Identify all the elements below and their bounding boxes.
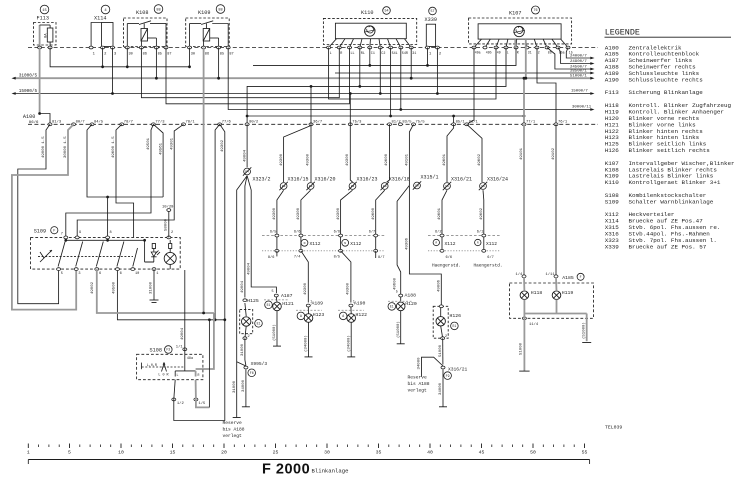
pin A100 76/1: [554, 120, 568, 126]
connector X316/18: [381, 177, 410, 191]
svg-text:49600: 49600: [372, 207, 376, 220]
pin K110-C2: [378, 46, 385, 56]
svg-text:88: 88: [156, 8, 160, 12]
svg-text:5: 5: [68, 450, 71, 456]
svg-text:A190: A190: [605, 76, 620, 83]
bulb designator E1 H126: [451, 322, 459, 330]
pin X112 8/5: [334, 249, 343, 259]
connector X112 #1: [301, 239, 321, 247]
wire K110-C2 drop to 15000 bus: [379, 48, 382, 95]
svg-text:28500/1: 28500/1: [570, 68, 587, 73]
pin K110-31: [409, 46, 416, 56]
svg-text:X316/18: X316/18: [389, 177, 410, 183]
wire label 31000 S109: [149, 281, 153, 294]
svg-text:49300: 49300: [273, 207, 277, 220]
wire pin 75/5 drop: [406, 124, 414, 185]
pin X112 6/5: [270, 230, 279, 237]
note reserve-left text: [223, 420, 245, 439]
svg-text:8/5: 8/5: [334, 255, 340, 260]
net label 15000/7 right exit: [571, 89, 595, 95]
interval unit K107 designator: [509, 6, 540, 17]
svg-text:3: 3: [78, 272, 80, 276]
connector X114: [91, 23, 113, 48]
svg-text:6/7: 6/7: [487, 255, 493, 260]
svg-text:A: A: [342, 314, 344, 318]
bulb designator E1 H120: [388, 303, 396, 311]
pin K107-49a: [472, 46, 481, 54]
svg-text:8/6: 8/6: [268, 255, 274, 260]
note reserve-right text: [408, 375, 430, 394]
lamp unit A187 label: [272, 290, 293, 299]
device label E1 for H125: [255, 320, 263, 328]
connector X112 #2: [342, 239, 362, 247]
pin K107-15: [566, 46, 573, 54]
svg-text:Haengerstd.: Haengerstd.: [474, 264, 503, 269]
svg-text:6/1: 6/1: [477, 230, 483, 235]
pin X112 8/6 + stub: [268, 249, 279, 259]
pin X339-2: [435, 46, 442, 56]
wire grey down to S108-R: [196, 313, 214, 369]
svg-text:Schalter Warnblinkanlage: Schalter Warnblinkanlage: [629, 198, 714, 205]
svg-text:S109: S109: [605, 198, 620, 205]
wire X995/3 down 34000: [242, 370, 246, 407]
svg-text:verlegt: verlegt: [223, 433, 243, 439]
svg-text:5: 5: [61, 272, 63, 276]
wire feed H121 from X323/2: [247, 176, 276, 293]
svg-text:77/3: 77/3: [155, 120, 165, 125]
lamp H118: [520, 278, 542, 300]
svg-text:49002: 49002: [91, 281, 95, 294]
interval unit K107: [469, 18, 572, 48]
pin A100 81/3: [48, 120, 62, 126]
wire X339-2 drop to 15000 bus: [436, 48, 439, 95]
wire pin 85/1 drop: [443, 124, 453, 182]
wire X316/20 down: [297, 190, 311, 251]
svg-text:R: R: [517, 51, 519, 55]
svg-text:45: 45: [479, 450, 485, 456]
ground tick A185: [519, 370, 529, 372]
svg-text:2: 2: [538, 51, 540, 55]
svg-text:76/1: 76/1: [558, 120, 568, 125]
pin K107-31: [525, 46, 532, 54]
device A100 terminal label: [23, 114, 39, 125]
svg-text:(34000): (34000): [346, 335, 351, 352]
svg-text:1: 1: [156, 272, 158, 276]
svg-text:6/6: 6/6: [446, 255, 452, 260]
svg-text:X114: X114: [94, 16, 106, 22]
net label 51000/1 right exit: [570, 74, 595, 80]
pin A185 1/11: [546, 272, 559, 277]
svg-text:49300: 49300: [297, 207, 301, 220]
svg-text:30: 30: [324, 450, 330, 456]
svg-text:X316/21: X316/21: [451, 177, 472, 183]
wire S108-L lead: [174, 380, 175, 400]
ground tick H121: [273, 345, 281, 347]
pin X114-2: [101, 46, 108, 56]
wire grey S109-6 to K109-86: [97, 269, 214, 314]
svg-text:31000: 31000: [149, 281, 153, 294]
wire K110-RL drop: [358, 48, 361, 88]
pin H126 top: [439, 305, 443, 308]
pin S109-8: [106, 231, 112, 239]
wire pin 36/7 drop: [307, 124, 311, 182]
svg-text:80/2: 80/2: [249, 120, 259, 125]
wire F113 grey drop to A100 86/6: [39, 48, 41, 114]
wire grey feed H118: [520, 124, 524, 276]
net X112 rail bottom left (dotted grey): [262, 250, 385, 252]
svg-text:86: 86: [143, 53, 147, 57]
svg-text:Reserve: Reserve: [408, 375, 428, 381]
svg-text:75/5: 75/5: [416, 120, 426, 125]
pin X114-3: [111, 46, 118, 56]
pin S108-L bottom: [172, 398, 185, 406]
flasher control unit K110: [323, 18, 416, 47]
svg-text:Kontrollgeraet Blinker 3+1: Kontrollgeraet Blinker 3+1: [629, 179, 721, 186]
pin K110-L: [327, 46, 332, 56]
svg-text:57: 57: [430, 10, 434, 14]
wire bus 15-feed y66.8: [50, 48, 189, 67]
net label 28500/1 right exit: [570, 68, 595, 74]
svg-text:F 2000: F 2000: [262, 462, 310, 478]
connector X316/21 lower: [441, 366, 468, 379]
svg-text:1: 1: [310, 299, 312, 303]
switch S109 hazard switch: [31, 237, 181, 269]
bridge connector X339 designator: [425, 7, 437, 23]
wire feed H125: [241, 176, 247, 298]
wire feed H119: [552, 124, 556, 276]
pin K108-87: [164, 46, 172, 56]
note Haengerstd left: [432, 264, 461, 269]
pin K110-R: [337, 46, 342, 56]
bridge connector X339: [426, 24, 437, 47]
pin S109-9: [75, 231, 81, 239]
pin X112 6/2: [435, 230, 444, 237]
svg-text:2: 2: [445, 335, 447, 339]
svg-text:E1: E1: [452, 324, 456, 328]
pin K108-30: [125, 46, 133, 56]
svg-text:F113: F113: [605, 89, 620, 96]
svg-text:50: 50: [530, 450, 536, 456]
wire bus y116: [246, 115, 526, 118]
wire pin 75/3 drop: [346, 124, 352, 182]
pin X112 6/6r: [440, 249, 452, 260]
svg-text:30000/11: 30000/11: [572, 105, 592, 110]
wire pin 77/6 to S108 branch: [117, 124, 226, 321]
svg-text:1/2: 1/2: [177, 401, 185, 406]
pin H121 feed: [274, 294, 278, 297]
pin X339-1: [426, 46, 433, 56]
wire bus y99 K110-L to K107-49: [329, 48, 496, 100]
device A189 dashed fragment: [296, 309, 322, 311]
pin H120 top: [396, 291, 403, 297]
svg-text:F113: F113: [37, 16, 49, 22]
wire branch 49561 from 77/3: [153, 124, 163, 197]
svg-text:K110: K110: [361, 10, 373, 16]
svg-text:(34000): (34000): [304, 335, 309, 352]
svg-text:75/3: 75/3: [352, 120, 362, 125]
svg-text:36/7: 36/7: [313, 120, 322, 125]
pin A100 80/7: [72, 120, 85, 126]
svg-text:5: 5: [272, 290, 274, 294]
pin K107-2: [535, 46, 540, 54]
wire H118-H119 common ground bar grey: [524, 300, 586, 314]
net label 15000/5 left exit: [12, 89, 38, 95]
pin A100 75/5: [412, 120, 426, 126]
note Haengerstd right: [474, 264, 503, 269]
svg-text:15000/7: 15000/7: [571, 89, 588, 94]
net X112 rail top left (dashed grey): [262, 235, 385, 237]
svg-text:N: N: [304, 242, 306, 245]
wire label 49600: [112, 136, 116, 158]
wire X995/3 to reserve join: [237, 362, 246, 366]
svg-text:51000: 51000: [520, 342, 524, 355]
svg-text:35: 35: [376, 450, 382, 456]
pin A100 78/7: [120, 120, 133, 126]
svg-text:7: 7: [61, 233, 63, 237]
bulb designator E1 H121: [265, 301, 273, 309]
svg-text:H126: H126: [605, 147, 620, 154]
svg-text:10/29: 10/29: [162, 205, 174, 210]
svg-text:L,0,R: L,0,R: [147, 364, 157, 368]
pin A100 77/6: [218, 120, 232, 126]
wire X114-3 drop to 15000 bus: [111, 48, 114, 95]
pin S109-7: [61, 233, 68, 239]
bulb designator A H123: [297, 312, 305, 320]
svg-text:Schlussleuchte rechts: Schlussleuchte rechts: [629, 76, 704, 83]
wire H126 down 51000: [439, 338, 443, 364]
svg-text:A187: A187: [281, 293, 293, 299]
svg-text:24900/7: 24900/7: [570, 59, 587, 64]
connector X995/3: [244, 361, 267, 377]
wire grey feed pin 77/1 from 31000 bus: [523, 77, 526, 125]
connector X112 #4: [475, 239, 498, 247]
pin F113-right: [48, 46, 52, 49]
svg-text:34000: 34000: [418, 357, 422, 370]
wire X316/18 down: [372, 190, 385, 251]
svg-text:55: 55: [582, 450, 588, 456]
pin K107-86: [545, 46, 552, 54]
svg-text:54: 54: [384, 10, 388, 14]
wire exit 24500/7: [547, 48, 595, 71]
pin X114-1: [89, 46, 96, 56]
svg-text:X316/20: X316/20: [315, 177, 336, 183]
fuse F113 designator: [37, 5, 49, 21]
svg-text:15: 15: [42, 9, 47, 13]
pin H123 feed: [306, 299, 312, 307]
svg-text:X112: X112: [310, 241, 321, 247]
lamp unit A189 label: [312, 301, 324, 307]
svg-text:H122: H122: [356, 312, 368, 318]
svg-text:L: L: [330, 52, 332, 56]
svg-text:H119: H119: [562, 290, 574, 296]
svg-text:48a: 48a: [187, 357, 193, 361]
wire H125 to X995/3: [241, 338, 246, 365]
svg-text:49300: 49300: [347, 282, 351, 295]
svg-text:Blinker seitlich rechts: Blinker seitlich rechts: [629, 147, 711, 154]
lamp unit A190 label: [354, 301, 366, 307]
connector X114 designator: [94, 5, 110, 21]
svg-text:49600: 49600: [393, 277, 397, 290]
wire 49000 pin 81/3 to S109-5: [18, 124, 59, 303]
wire label 49500: [112, 281, 116, 294]
wire X316/24 down: [480, 190, 484, 252]
connector X316/21 upper: [443, 177, 472, 191]
svg-text:31000/5: 31000/5: [19, 74, 38, 79]
wire K110-54R drop to 30000 bus: [399, 48, 402, 111]
pin A185 1/4: [516, 272, 527, 277]
svg-text:E1: E1: [257, 321, 261, 325]
pin K107-L: [504, 46, 509, 54]
svg-text:N: N: [344, 242, 346, 245]
svg-text:1/1: 1/1: [176, 345, 184, 350]
svg-text:X112: X112: [445, 241, 456, 247]
wire end tick reserve-left: [233, 417, 241, 419]
pin K110-C1: [368, 46, 375, 56]
svg-text:L: L: [507, 51, 509, 55]
svg-text:49501: 49501: [147, 137, 151, 150]
svg-text:Blinkanlage: Blinkanlage: [312, 468, 349, 475]
svg-text:6/7: 6/7: [369, 230, 375, 235]
svg-text:5: 5: [396, 291, 398, 295]
svg-text:H121: H121: [282, 301, 294, 307]
svg-text:49306: 49306: [406, 237, 410, 250]
svg-text:40: 40: [427, 450, 433, 456]
net X112 rail bottom right (dotted grey): [428, 250, 500, 252]
svg-text:F6: F6: [250, 371, 254, 375]
svg-text:1/4: 1/4: [516, 272, 524, 277]
svg-text:20: 20: [221, 450, 227, 456]
svg-text:X323/2: X323/2: [253, 177, 271, 183]
relay K108: [124, 18, 168, 48]
wire pin 75/3 feed from bus: [349, 92, 352, 124]
svg-text:X339: X339: [605, 243, 620, 250]
pin H122 feed: [349, 299, 355, 307]
svg-text:Haengerstd.: Haengerstd.: [432, 264, 461, 269]
pin A100 83/5: [398, 120, 412, 126]
svg-text:H123: H123: [313, 312, 325, 318]
wire K107-R grey lead: [514, 39, 516, 47]
pin A100 36/7: [309, 120, 322, 126]
wire 30000 grey pin 80/7 to S109-3: [12, 124, 76, 309]
svg-text:49300: 49300: [280, 153, 284, 166]
svg-text:49300: 49300: [346, 153, 350, 166]
pin S108-R bottom: [194, 398, 206, 406]
device A188 dashed fragment: [388, 300, 412, 302]
pin X112 8/7 + stub: [374, 249, 385, 259]
svg-text:49500: 49500: [112, 281, 116, 294]
svg-text:1: 1: [353, 299, 355, 303]
svg-text:49102: 49102: [552, 147, 556, 160]
relay K109: [186, 18, 230, 48]
svg-text:49006: 49006: [438, 279, 442, 292]
svg-text:H118: H118: [531, 290, 543, 296]
ground S109: [150, 300, 159, 303]
svg-text:25: 25: [273, 450, 279, 456]
wire bus y86.4 to K107-L: [247, 48, 506, 125]
wire K107-2 to pin 76/1: [537, 48, 556, 125]
lamp H126 box: [433, 306, 448, 338]
pin K110-LL: [348, 46, 355, 56]
wire K110-C1 drop: [368, 48, 371, 67]
ground tick right of A185: [582, 342, 591, 344]
wire to H123: [301, 251, 308, 303]
svg-text:49301: 49301: [170, 137, 174, 150]
wire H122 to ground: [346, 322, 351, 357]
svg-text:A100: A100: [23, 114, 35, 120]
svg-text:49601: 49601: [438, 207, 442, 220]
svg-text:E1: E1: [390, 305, 394, 309]
wire pin 77/3 to S109-7: [66, 124, 154, 237]
wire S108 1/2 route: [174, 320, 225, 421]
svg-text:76: 76: [533, 9, 537, 13]
wire end tick below X316/21: [439, 406, 447, 408]
svg-text:49300: 49300: [337, 207, 341, 220]
net A100 central-electric bottom rail (dashed): [28, 123, 598, 125]
wire pin 81/2 drop: [385, 124, 389, 182]
wire K107-49a to pin 83/1: [467, 48, 474, 125]
lamp H123: [304, 307, 324, 322]
wire S109-1 to ground: [153, 269, 155, 300]
svg-text:77/6: 77/6: [222, 120, 232, 125]
pin A100 81/2: [388, 120, 402, 126]
svg-text:54L: 54L: [392, 52, 398, 56]
pin H125 bottom: [243, 335, 250, 339]
svg-text:E1: E1: [267, 303, 271, 307]
connector X316/24: [479, 177, 508, 191]
pin F113-left: [38, 46, 42, 49]
svg-text:49004: 49004: [241, 280, 245, 293]
flasher control unit K110 designator: [361, 7, 390, 16]
svg-text:49600: 49600: [385, 153, 389, 166]
wire grey right ground 51000: [581, 314, 586, 342]
pin S109-1 bottom: [152, 268, 158, 276]
svg-text:6: 6: [120, 272, 122, 276]
svg-text:X316/21: X316/21: [448, 367, 468, 373]
net A100 central-electric top rail (dashed): [28, 47, 598, 49]
junction dot X339-1 on bus: [426, 64, 429, 67]
wire label 49002: [91, 281, 95, 294]
svg-text:X316/23: X316/23: [357, 177, 378, 183]
svg-text:2: 2: [171, 231, 173, 235]
pin X112 6/1: [477, 230, 486, 237]
lamp H122: [347, 307, 367, 322]
svg-text:85: 85: [220, 53, 224, 57]
svg-text:78/7: 78/7: [124, 120, 133, 125]
svg-text:A: A: [300, 314, 302, 318]
svg-text:49302: 49302: [221, 139, 225, 152]
svg-text:C1: C1: [371, 52, 375, 56]
wire grey K109-86 long drop: [203, 48, 205, 314]
junction dot K109-30 on bus: [188, 65, 191, 68]
device A190 dashed fragment: [338, 309, 364, 311]
wire pin 80/2 drop: [243, 124, 247, 167]
svg-text:80/7: 80/7: [76, 120, 85, 125]
svg-text:87: 87: [229, 53, 233, 57]
pin H125 top: [243, 298, 259, 304]
svg-text:88: 88: [218, 8, 222, 12]
svg-text:bis A188: bis A188: [223, 426, 245, 432]
pin K108-85: [154, 46, 162, 56]
svg-text:H126: H126: [450, 313, 462, 319]
svg-text:49300: 49300: [307, 153, 311, 166]
svg-text:X339: X339: [425, 17, 437, 23]
svg-text:30000 1.5: 30000 1.5: [64, 136, 68, 158]
svg-text:K110: K110: [605, 179, 620, 186]
svg-text:83/1: 83/1: [469, 120, 479, 125]
svg-text:X995/3: X995/3: [251, 361, 268, 367]
wire X316/15 down: [273, 190, 284, 251]
relay K109 designator: [198, 5, 225, 16]
